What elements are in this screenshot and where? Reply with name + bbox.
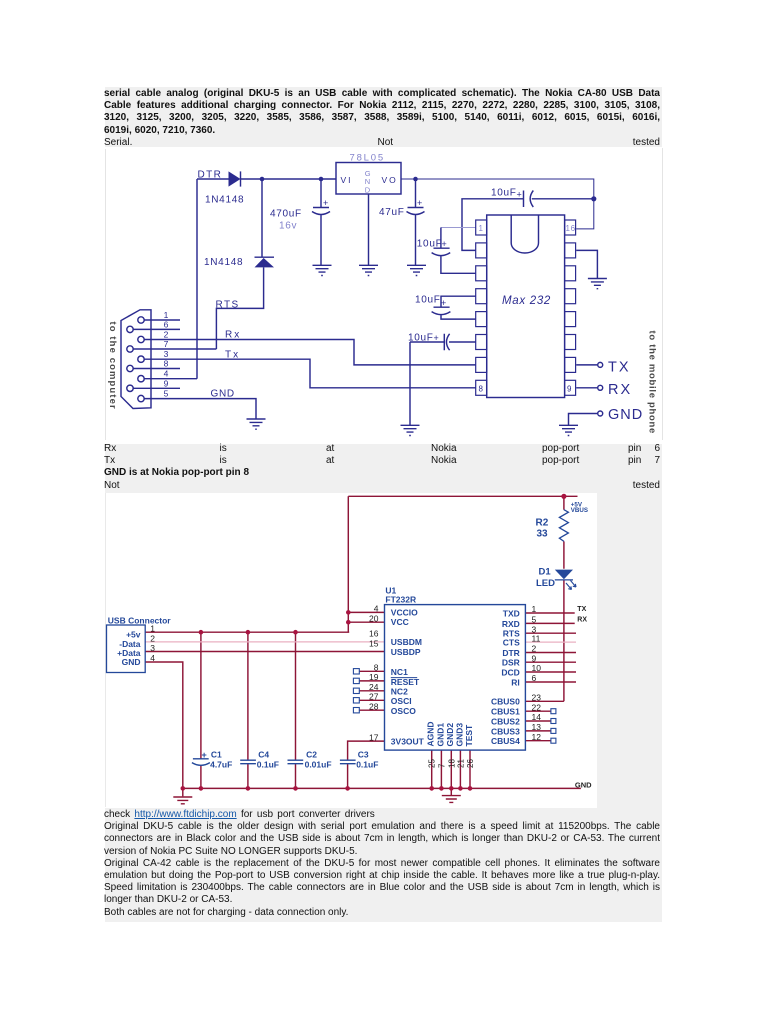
svg-text:24: 24: [369, 682, 379, 692]
svg-text:D1: D1: [539, 567, 552, 578]
svg-text:Rx: Rx: [225, 330, 241, 341]
svg-text:4: 4: [150, 653, 155, 663]
svg-text:14: 14: [532, 712, 542, 722]
svg-text:CBUS3: CBUS3: [491, 726, 520, 736]
svg-text:1: 1: [150, 624, 155, 634]
svg-text:9: 9: [532, 653, 537, 663]
svg-text:DTR: DTR: [502, 648, 519, 658]
svg-text:0.1uF: 0.1uF: [356, 759, 378, 769]
svg-text:Tx: Tx: [225, 350, 240, 361]
svg-text:+: +: [434, 333, 440, 343]
svg-text:2: 2: [150, 633, 155, 643]
svg-text:26: 26: [466, 759, 475, 768]
svg-text:C4: C4: [258, 750, 269, 760]
svg-text:GND2: GND2: [445, 723, 455, 747]
svg-text:8: 8: [164, 359, 169, 369]
svg-text:3: 3: [150, 643, 155, 653]
svg-text:11: 11: [532, 633, 541, 643]
svg-text:GND1: GND1: [436, 723, 446, 747]
svg-text:D: D: [365, 186, 371, 195]
svg-text:2: 2: [532, 644, 537, 654]
svg-text:RXD: RXD: [502, 619, 520, 629]
svg-text:NC1: NC1: [391, 667, 408, 677]
svg-text:22: 22: [532, 702, 542, 712]
svg-text:10uF: 10uF: [417, 238, 443, 249]
svg-text:AGND: AGND: [426, 721, 436, 746]
svg-text:DSR: DSR: [502, 658, 520, 668]
svg-text:78L05: 78L05: [350, 152, 385, 163]
svg-text:DCD: DCD: [501, 667, 519, 677]
svg-text:USBDP: USBDP: [391, 647, 421, 657]
svg-text:VCCIO: VCCIO: [391, 608, 418, 618]
svg-text:4: 4: [164, 369, 169, 379]
svg-text:GND: GND: [575, 781, 592, 790]
svg-text:C3: C3: [358, 750, 369, 760]
svg-text:0.01uF: 0.01uF: [305, 759, 332, 769]
svg-text:USB Connector: USB Connector: [108, 615, 172, 625]
svg-text:TX: TX: [608, 360, 631, 376]
svg-text:6: 6: [532, 673, 537, 683]
svg-text:to the mobile phone: to the mobile phone: [647, 331, 658, 435]
svg-text:9: 9: [567, 385, 572, 394]
svg-text:+: +: [517, 190, 523, 200]
svg-text:4: 4: [374, 604, 379, 614]
svg-text:+: +: [417, 198, 423, 208]
svg-text:CBUS2: CBUS2: [491, 716, 520, 726]
svg-text:GND: GND: [211, 389, 235, 400]
svg-text:0.1uF: 0.1uF: [257, 759, 279, 769]
svg-text:VCC: VCC: [391, 617, 409, 627]
svg-text:2: 2: [164, 330, 169, 340]
svg-text:VO: VO: [382, 175, 398, 185]
svg-text:LED: LED: [536, 578, 555, 589]
svg-text:9: 9: [164, 378, 169, 388]
svg-text:VI: VI: [341, 175, 353, 185]
svg-text:7: 7: [164, 339, 169, 349]
svg-text:16: 16: [566, 224, 576, 233]
svg-text:27: 27: [369, 692, 379, 702]
svg-text:4.7uF: 4.7uF: [210, 759, 232, 769]
svg-text:13: 13: [532, 722, 542, 732]
svg-text:18: 18: [447, 759, 456, 768]
svg-text:to the computer: to the computer: [107, 322, 118, 410]
svg-text:10uF: 10uF: [491, 188, 517, 199]
svg-text:TEST: TEST: [464, 724, 474, 747]
svg-text:DTR: DTR: [198, 170, 223, 181]
svg-text:10uF: 10uF: [408, 333, 434, 344]
svg-text:RX: RX: [577, 616, 587, 623]
svg-text:CBUS4: CBUS4: [491, 736, 520, 746]
svg-text:VBUS: VBUS: [571, 507, 588, 514]
svg-text:USBDM: USBDM: [391, 637, 422, 647]
svg-text:CBUS1: CBUS1: [491, 707, 520, 717]
svg-text:10: 10: [532, 663, 542, 673]
svg-text:23: 23: [532, 693, 542, 703]
svg-text:1N4148: 1N4148: [204, 257, 243, 268]
svg-text:1N4148: 1N4148: [205, 195, 244, 206]
svg-text:19: 19: [369, 672, 379, 682]
svg-text:21: 21: [456, 759, 465, 768]
svg-text:16v: 16v: [279, 221, 297, 232]
svg-text:+: +: [442, 239, 448, 249]
svg-text:28: 28: [369, 701, 379, 711]
svg-text:+: +: [323, 198, 329, 208]
svg-text:CTS: CTS: [503, 638, 520, 648]
svg-text:+: +: [202, 750, 207, 760]
svg-text:TXD: TXD: [503, 608, 520, 618]
svg-text:17: 17: [369, 732, 379, 742]
svg-text:C2: C2: [306, 750, 317, 760]
svg-text:RX: RX: [608, 382, 632, 398]
svg-text:R2: R2: [536, 518, 549, 529]
svg-text:RI: RI: [511, 677, 520, 687]
svg-text:8: 8: [374, 663, 379, 673]
svg-text:5: 5: [532, 615, 537, 625]
svg-text:NC2: NC2: [391, 687, 408, 697]
svg-text:C1: C1: [211, 750, 222, 760]
svg-text:1: 1: [532, 604, 537, 614]
svg-text:33: 33: [537, 529, 549, 540]
svg-text:Max 232: Max 232: [502, 295, 551, 307]
svg-text:GND: GND: [122, 657, 141, 667]
svg-text:16: 16: [369, 628, 379, 638]
svg-text:FT232R: FT232R: [385, 595, 416, 605]
svg-text:5: 5: [164, 389, 169, 399]
svg-text:10uF: 10uF: [415, 295, 441, 306]
svg-text:+: +: [441, 298, 447, 308]
svg-text:OSCO: OSCO: [391, 706, 416, 716]
svg-text:8: 8: [479, 385, 484, 394]
svg-text:3V3OUT: 3V3OUT: [391, 737, 425, 747]
svg-text:1: 1: [479, 224, 484, 233]
svg-text:CBUS0: CBUS0: [491, 697, 520, 707]
svg-text:GND: GND: [608, 407, 643, 423]
svg-text:25: 25: [428, 759, 437, 768]
svg-text:TX: TX: [577, 606, 586, 613]
svg-text:20: 20: [369, 613, 379, 623]
svg-text:7: 7: [437, 763, 446, 768]
svg-text:47uF: 47uF: [379, 207, 405, 218]
svg-text:RTS: RTS: [216, 300, 240, 311]
svg-text:6: 6: [164, 319, 169, 329]
svg-text:15: 15: [369, 638, 379, 648]
svg-text:OSCI: OSCI: [391, 696, 412, 706]
svg-text:12: 12: [532, 732, 542, 742]
svg-text:470uF: 470uF: [270, 209, 302, 220]
